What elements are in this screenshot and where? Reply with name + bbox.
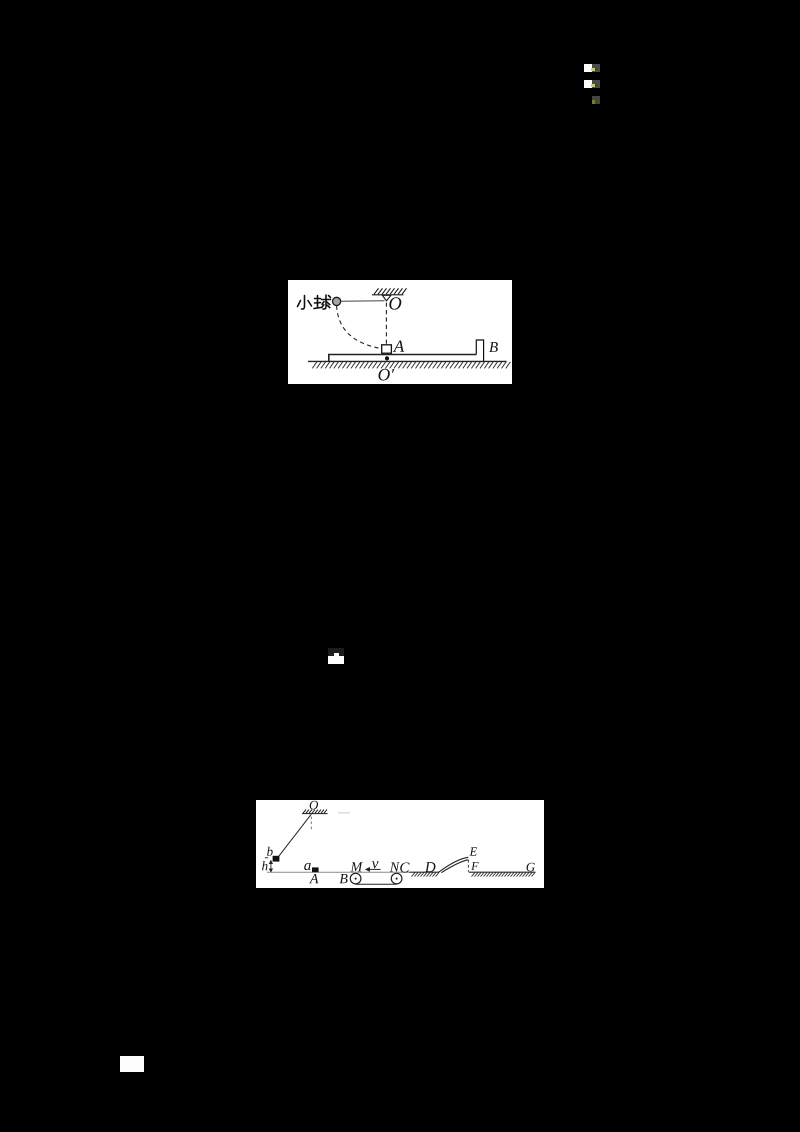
string O to b (279, 814, 312, 856)
small white rect bottom left (120, 1056, 144, 1072)
label h (262, 861, 268, 870)
label A (309, 874, 318, 883)
label M (350, 862, 362, 871)
dashed vertical O to A (385, 303, 387, 345)
dashed vertical below O (310, 817, 312, 832)
label D (425, 862, 436, 872)
icon row 3 yellow mark (592, 100, 595, 104)
tick at top of h (265, 857, 268, 859)
label C (400, 862, 409, 872)
ground F to G hatched (469, 871, 536, 873)
roller left (350, 873, 361, 884)
pivot triangle O (382, 295, 391, 301)
belt bottom line (356, 883, 397, 885)
label N (390, 862, 400, 871)
label O' (378, 369, 394, 381)
plank (329, 355, 477, 362)
icon row 1 white square (584, 64, 592, 72)
faint line right of ceiling (338, 812, 350, 814)
ground C to D hatched (410, 871, 439, 873)
label F (471, 862, 478, 870)
string horizontal (341, 300, 385, 303)
icon row 3 gray square (592, 96, 600, 104)
label O (310, 801, 318, 810)
label O (389, 297, 401, 309)
ground hatching (312, 362, 510, 369)
tiny cart mark cab (334, 653, 340, 656)
dashed vertical E to F (467, 860, 469, 872)
label b (267, 847, 273, 856)
diagram 2 : pendulum b, block a, conveyor MN, ramp DE (256, 800, 544, 888)
node O' dot (385, 356, 389, 360)
roller right (391, 873, 402, 884)
label B (340, 874, 348, 883)
label a (304, 863, 310, 870)
block A (382, 345, 392, 353)
icon row 2 gray square (592, 80, 600, 88)
ground line (308, 360, 507, 362)
label B (489, 342, 498, 352)
icon row 1 gray square (592, 64, 600, 72)
label 小球 (hand drawn strokes) (298, 295, 331, 309)
label G (527, 863, 535, 872)
ramp curve D to E inner (441, 860, 468, 873)
label E (469, 847, 477, 855)
v arrow pointing left (366, 868, 381, 871)
wall B (476, 340, 483, 361)
icon row 2 yellow mark (591, 84, 595, 87)
ball 小球 (333, 297, 341, 305)
dashed arc trajectory (337, 306, 382, 349)
ground line left section (267, 871, 410, 873)
h double arrow (270, 861, 273, 872)
label v (372, 861, 378, 868)
ceiling line (302, 810, 328, 814)
block b (273, 856, 280, 862)
block a (312, 867, 319, 872)
ramp curve D to E outer (438, 857, 468, 872)
icon row 2 white square (584, 80, 592, 88)
tiny cart mark body (328, 656, 344, 665)
diagram 1 : pendulum ball released onto block A on plank with wall B (288, 280, 512, 384)
label A (393, 340, 404, 351)
icon row 1 yellow mark (591, 68, 595, 71)
tiny cart mark mid-left : dark smudge (328, 648, 344, 656)
ceiling line over O (372, 288, 407, 295)
